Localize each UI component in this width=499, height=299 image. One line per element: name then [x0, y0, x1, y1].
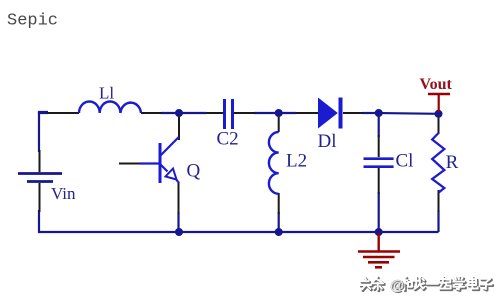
svg-text:Q: Q [187, 161, 201, 182]
svg-text:Vin: Vin [51, 184, 76, 203]
svg-text:Cl: Cl [396, 150, 414, 171]
svg-text:Vout: Vout [420, 76, 453, 93]
svg-text:Sepic: Sepic [7, 12, 58, 31]
svg-text:R: R [446, 152, 459, 173]
svg-text:L2: L2 [286, 150, 307, 171]
svg-text:C2: C2 [217, 129, 239, 150]
svg-text:@: @ [390, 278, 404, 294]
svg-text:Dl: Dl [318, 131, 337, 152]
svg-text:Ll: Ll [99, 84, 114, 103]
